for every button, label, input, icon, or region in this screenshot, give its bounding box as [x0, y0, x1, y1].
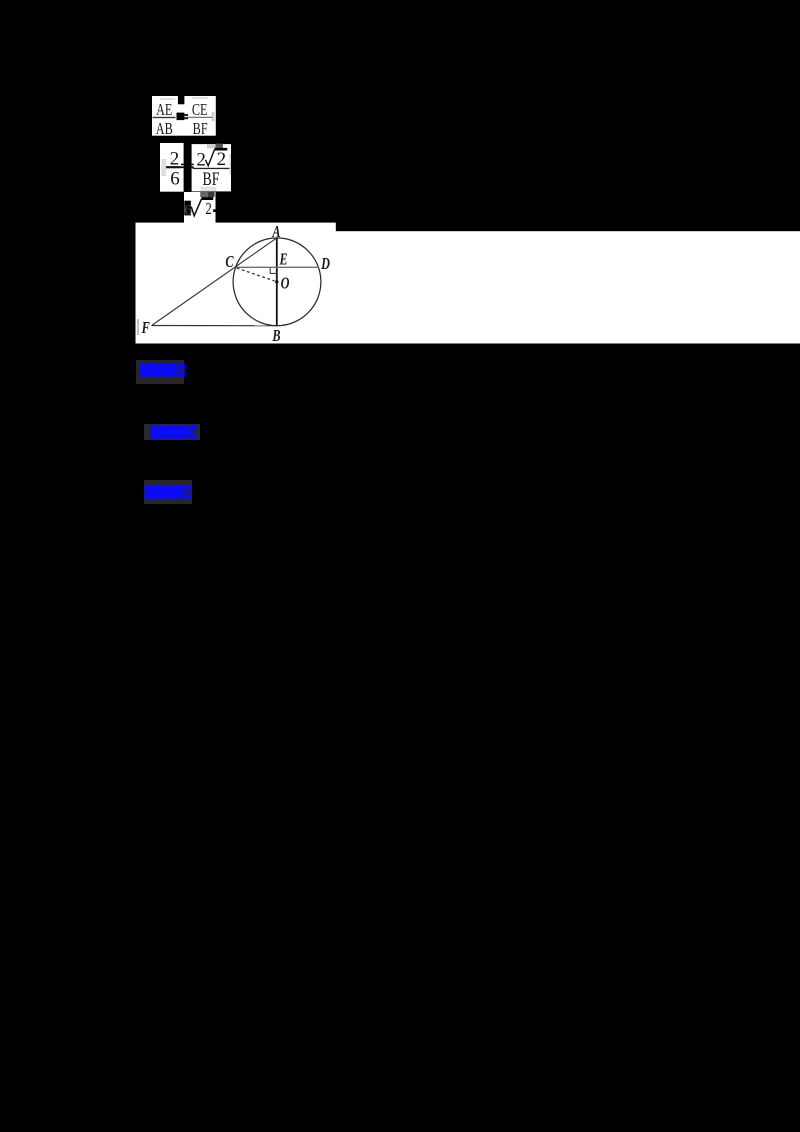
- svg-text:BF: BF: [192, 120, 207, 136]
- svg-text:BF: BF: [203, 168, 220, 190]
- dashed CO: [237, 268, 275, 281]
- svg-text:AB: AB: [155, 120, 172, 136]
- circle O: [233, 238, 321, 326]
- line FB: [152, 325, 277, 327]
- svg-text:6: 6: [170, 169, 180, 190]
- artifact bar left of F: [137, 319, 139, 335]
- svg-text:E: E: [279, 251, 288, 269]
- formula image 3: 6 sqrt2: [184, 192, 216, 224]
- svg-text:2: 2: [205, 201, 211, 219]
- svg-text:C: C: [225, 253, 233, 271]
- svg-text:B: B: [271, 327, 280, 344]
- svg-text:O: O: [281, 275, 290, 293]
- svg-text:6: 6: [184, 202, 192, 218]
- labels: [141, 223, 330, 345]
- chord CD: [236, 266, 319, 268]
- white band main: [136, 231, 800, 343]
- svg-text:D: D: [320, 255, 330, 273]
- formula image 2: 2/6 = 2sqrt2/BF: [160, 143, 231, 192]
- svg-text:A: A: [271, 223, 280, 241]
- svg-text:2: 2: [217, 149, 227, 170]
- svg-text:F: F: [141, 319, 150, 337]
- line FA: [152, 238, 277, 326]
- blue row 1: [136, 360, 184, 384]
- blue row 3: [144, 480, 192, 504]
- diameter AB: [276, 238, 278, 326]
- blue row 2: [144, 424, 200, 441]
- formula image 1: AE/AB = CE/BF: [152, 96, 216, 136]
- white band step: [136, 223, 336, 235]
- right angle mark at E: [270, 268, 277, 274]
- center dot O: [275, 280, 278, 283]
- figure band with geometry: [135, 222, 800, 344]
